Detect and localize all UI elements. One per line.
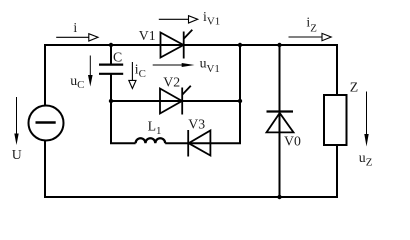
thyristor V2 triangle [160,89,182,114]
arrow uZ (filled down arrow) [364,92,368,147]
diode V3 cathode bar [187,130,189,157]
svg-text:i: i [73,20,77,35]
wire: capacitor branch lower [110,75,112,145]
arrow iZ (open head) [289,33,332,40]
node: capacitor / top rail junction [109,43,113,47]
wire: left vertical lower [44,140,46,198]
wire: middle vertical (V2/V3 right leg) [239,45,241,144]
arrow iC (open down arrow) [129,62,136,89]
voltage source U inner bar [36,121,56,124]
thyristor V2 gate [182,86,191,95]
node: middle vertical / top rail junction [238,43,242,47]
thyristor V1 gate [184,30,193,39]
wire: V3/L1 row horizontal right [165,142,241,144]
wire: V3/L1 row horizontal left [110,142,136,144]
load Z rectangle [324,95,347,145]
arrow uC (filled down arrow) [88,56,93,87]
thyristor V2 cathode bar [181,88,183,115]
wire: right vertical lower (Z branch bottom) [336,144,338,198]
node: middle vertical / V2 row junction [238,99,242,103]
wire: top rail [44,44,338,46]
diode V0 triangle (pointing up) [267,113,294,132]
arrow iV1 (open head) [159,16,198,23]
arrow uV1 (filled right arrow) [153,63,195,67]
thyristor V1 cathode bar [183,32,185,59]
svg-text:V0: V0 [284,133,301,148]
thyristor V1 triangle [161,33,184,58]
wire: bottom rail [44,196,338,198]
node: V0 branch / top rail junction [277,43,281,47]
wire: left vertical upper [44,44,46,106]
diode V0 cathode bar [267,110,294,112]
capacitor C bottom plate [99,73,123,75]
wire: V2 row horizontal [111,100,240,102]
svg-text:Z: Z [350,79,358,94]
svg-text:U: U [12,147,22,162]
wire: capacitor branch upper [110,45,112,64]
wire: right vertical upper (Z branch top) [336,44,338,96]
svg-text:V1: V1 [139,28,156,43]
svg-text:V3: V3 [188,117,205,132]
inductor L1 (three humps) [136,138,166,143]
arrow i (input current, open head) [56,34,98,41]
svg-text:C: C [113,50,122,65]
diode V3 triangle (pointing left) [189,131,211,156]
svg-text:V2: V2 [163,74,180,89]
wire: V0 branch vertical [279,45,281,197]
arrow U (source voltage, filled down arrow) [14,97,18,145]
node: V0 branch / bottom rail junction [277,195,281,199]
capacitor C top plate [99,63,123,65]
node: capacitor / V2 row junction [109,99,113,103]
voltage source U (circle) [29,106,64,141]
